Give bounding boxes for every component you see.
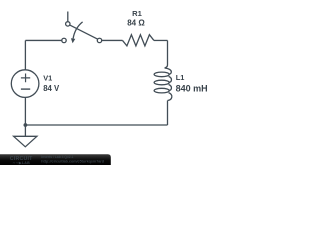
svg-text:L1: L1 bbox=[176, 73, 185, 82]
wire left vertical top bbox=[24, 40, 26, 69]
wire top-left horizontal bbox=[25, 39, 61, 41]
svg-text:R1: R1 bbox=[132, 9, 142, 18]
switch SW1 arrowhead bbox=[71, 38, 75, 43]
switch SW1 motion arc bbox=[73, 22, 83, 39]
voltage source V1 minus bbox=[21, 88, 30, 90]
svg-text:http://circuitlab.com/c5turkqs: http://circuitlab.com/c5turkqsm7ard bbox=[41, 160, 104, 164]
resistor R1 zigzag bbox=[123, 35, 154, 46]
wire resistor to right corner bbox=[154, 39, 168, 41]
inductor L1 coil bbox=[154, 65, 172, 101]
wire right vertical top bbox=[167, 40, 169, 64]
switch SW1 stub bbox=[67, 12, 69, 22]
switch SW1 top terminal bbox=[66, 22, 70, 26]
svg-text:Inverts / Lab 4 Q#2.1: Inverts / Lab 4 Q#2.1 bbox=[41, 155, 73, 159]
wire bottom horizontal bbox=[25, 124, 167, 126]
ground stem bbox=[24, 125, 26, 136]
svg-text:84 V: 84 V bbox=[43, 84, 60, 93]
wire switch to resistor bbox=[102, 39, 123, 41]
voltage source V1 plus bbox=[21, 74, 30, 83]
switch SW1 left terminal bbox=[62, 38, 66, 42]
voltage source V1 circle bbox=[11, 70, 39, 98]
svg-text:840 mH: 840 mH bbox=[176, 83, 208, 93]
wire right vertical bottom bbox=[167, 101, 169, 125]
svg-text:∼∼▶LAB: ∼∼▶LAB bbox=[13, 161, 31, 165]
switch SW1 right terminal bbox=[97, 38, 101, 42]
ground triangle bbox=[14, 136, 37, 147]
wire V1 bottom to junction bbox=[24, 97, 26, 125]
switch SW1 blade bbox=[70, 25, 98, 39]
svg-text:84 Ω: 84 Ω bbox=[127, 19, 145, 28]
junction dot bbox=[24, 123, 28, 127]
svg-text:V1: V1 bbox=[43, 74, 52, 83]
